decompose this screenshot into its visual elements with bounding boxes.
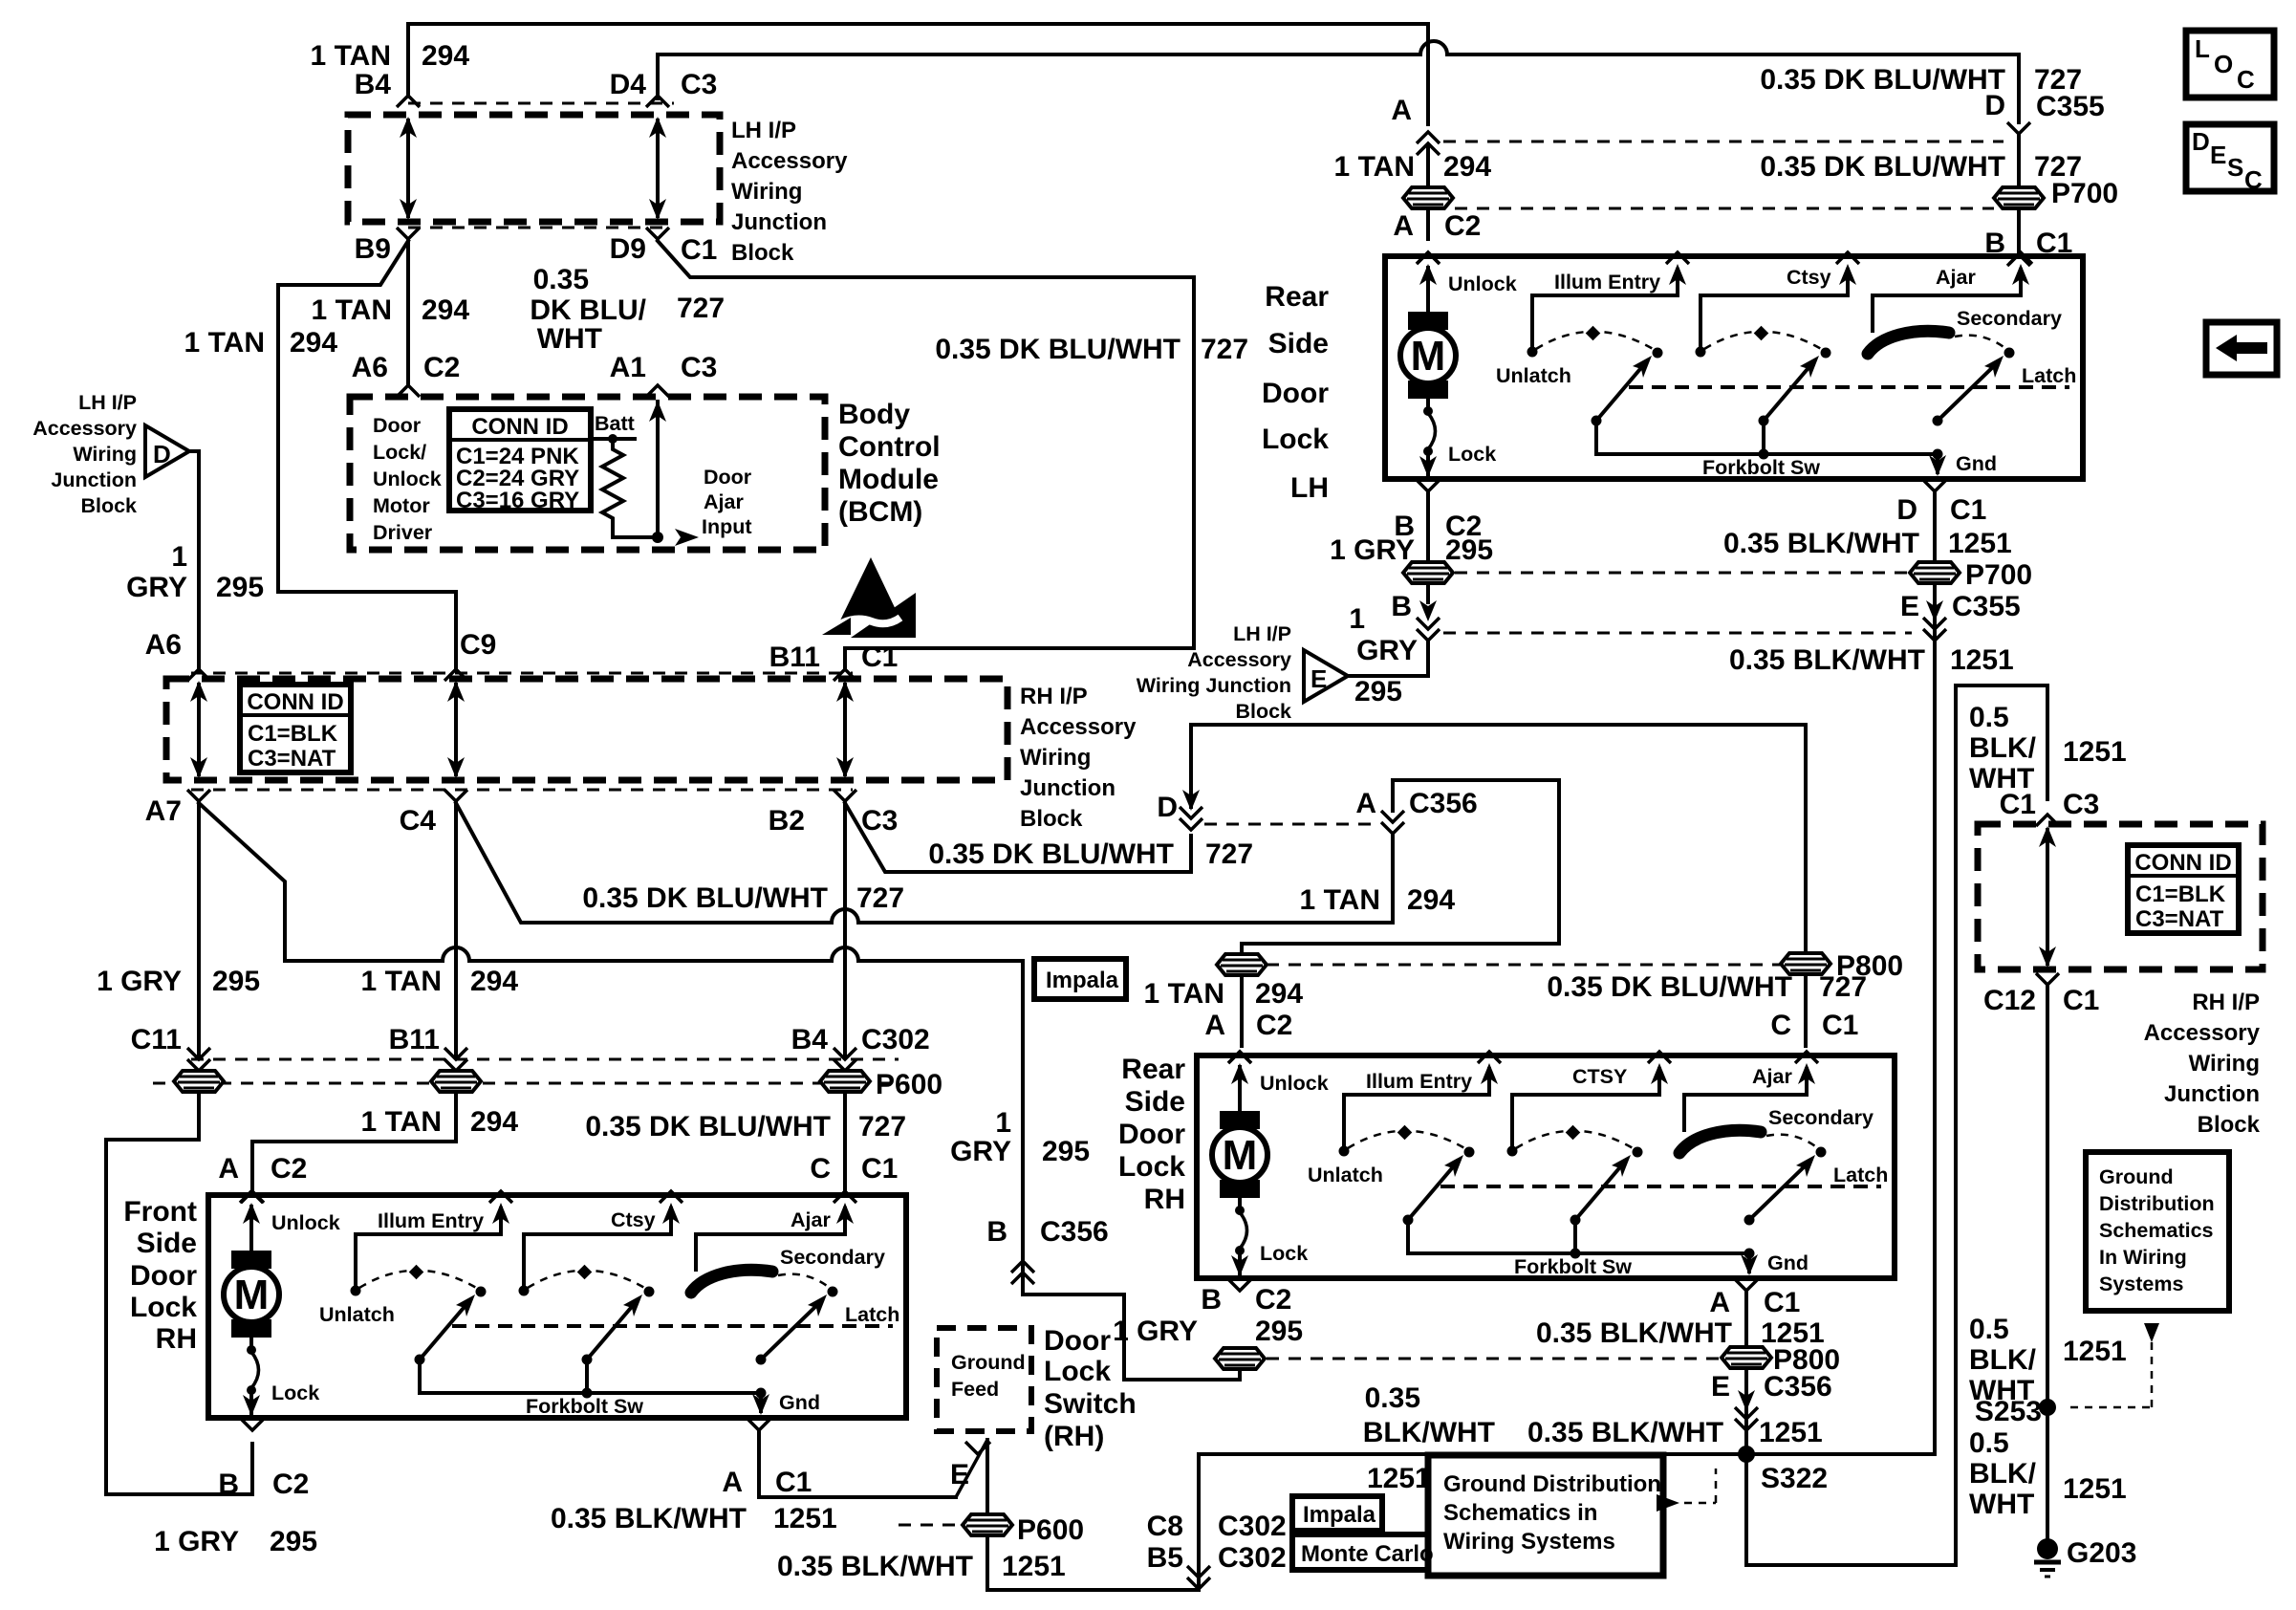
svg-text:0.5: 0.5	[1969, 702, 2009, 733]
svg-text:Ajar: Ajar	[704, 490, 744, 513]
svg-text:294: 294	[290, 327, 337, 359]
svg-text:A: A	[1709, 1287, 1730, 1318]
svg-text:Ground: Ground	[2099, 1165, 2174, 1188]
svg-text:1 TAN: 1 TAN	[361, 966, 442, 997]
connector P700 (1 TAN)	[1403, 187, 1453, 208]
svg-text:C: C	[2244, 165, 2263, 194]
svg-text:C4: C4	[400, 805, 437, 837]
wire dashed connector row top	[408, 102, 674, 105]
node D9 C1	[646, 228, 669, 239]
svg-text:294: 294	[470, 1106, 518, 1138]
svg-text:C1: C1	[2000, 789, 2036, 820]
node B C356	[1011, 1261, 1034, 1284]
svg-text:Junction: Junction	[1020, 775, 1116, 801]
connector P600 (C11)	[174, 1071, 224, 1092]
svg-text:Block: Block	[2198, 1112, 2261, 1138]
svg-text:Lock: Lock	[1262, 424, 1329, 455]
svg-text:1251: 1251	[773, 1503, 837, 1534]
svg-text:0.35 DK BLU/WHT: 0.35 DK BLU/WHT	[1547, 971, 1792, 1003]
svg-text:B2: B2	[769, 805, 805, 837]
node B2 C3	[834, 790, 856, 801]
svg-text:1251: 1251	[2063, 1336, 2127, 1367]
svg-text:In Wiring: In Wiring	[2099, 1246, 2187, 1269]
svg-text:Ground Distribution: Ground Distribution	[1443, 1471, 1661, 1497]
wire arrow inside right junction	[2046, 830, 2049, 964]
svg-text:C3: C3	[681, 69, 717, 100]
wire dashed row C356	[1204, 823, 1379, 826]
svg-text:C3: C3	[681, 352, 717, 383]
wire 727 riser from D4	[658, 54, 1420, 98]
pin A C1 below RH front	[747, 1419, 770, 1430]
svg-text:B: B	[1391, 591, 1412, 622]
svg-text:C1: C1	[1950, 494, 1986, 526]
wire P600 to C8/B5 riser	[987, 1457, 1199, 1590]
connector P700 (BLK/WHT)	[1910, 562, 1960, 583]
svg-text:(BCM): (BCM)	[838, 496, 922, 528]
wire A C1 front to E riser	[759, 1432, 956, 1497]
node DESC box	[2186, 124, 2274, 191]
svg-text:727: 727	[856, 882, 904, 914]
svg-text:C1: C1	[2036, 228, 2072, 259]
terminal E triangle	[1304, 650, 1348, 702]
svg-text:RH I/P: RH I/P	[2192, 990, 2260, 1015]
svg-text:0.35 BLK/WHT: 0.35 BLK/WHT	[777, 1551, 973, 1582]
svg-text:B4: B4	[355, 69, 392, 100]
svg-text:Wiring Systems: Wiring Systems	[1443, 1529, 1615, 1555]
wire 0.5 BLK/WHT loop top	[1956, 685, 2047, 799]
wire ajar pin RH front	[696, 1232, 845, 1236]
node C1 C3	[2036, 815, 2059, 826]
wire C11 loop to B C2 front box	[106, 1092, 252, 1494]
svg-text:294: 294	[422, 294, 469, 326]
wire dashed row P700 (GRY/BLK)	[1455, 572, 1908, 575]
svg-text:S: S	[2227, 153, 2243, 182]
svg-text:1 GRY: 1 GRY	[97, 966, 182, 997]
svg-text:Wiring: Wiring	[731, 179, 802, 205]
node D C355 (727)	[2007, 122, 2030, 134]
svg-text:Wiring Junction: Wiring Junction	[1137, 674, 1291, 697]
resistor R (door ajar pull-up)	[602, 439, 623, 537]
node C11	[187, 1048, 210, 1071]
svg-text:B: B	[1984, 228, 2005, 259]
wire B11 to A C2 front box	[252, 1092, 456, 1195]
svg-text:C2: C2	[423, 352, 460, 383]
wire arrows inside junction 2	[197, 685, 201, 774]
wire dashed pointer to S253	[2144, 1323, 2159, 1342]
wire A1 input arrow inside BCM	[656, 402, 660, 537]
svg-text:0.5: 0.5	[1969, 1427, 2009, 1459]
wire dashed row C355 top	[1443, 141, 2004, 143]
svg-text:Motor: Motor	[373, 494, 430, 517]
wire ground feed E to P600	[956, 1440, 987, 1497]
svg-text:BLK/WHT: BLK/WHT	[1363, 1417, 1495, 1448]
node C8 B5 C302	[1187, 1566, 1210, 1589]
wire arrow D4-D9 inside block	[656, 120, 660, 216]
svg-text:294: 294	[1443, 151, 1491, 183]
svg-text:P600: P600	[876, 1069, 942, 1100]
svg-text:Schematics in: Schematics in	[1443, 1500, 1597, 1526]
svg-text:Lock: Lock	[1118, 1151, 1185, 1183]
svg-text:1 GRY: 1 GRY	[154, 1526, 239, 1557]
svg-text:G203: G203	[2067, 1537, 2136, 1569]
wire E to B (P700)	[1348, 642, 1428, 676]
label Impala tag	[1292, 1496, 1382, 1531]
svg-text:CONN ID: CONN ID	[2134, 850, 2231, 876]
svg-text:C356: C356	[1040, 1216, 1109, 1248]
svg-text:295: 295	[1042, 1136, 1090, 1167]
svg-text:CONN ID: CONN ID	[247, 689, 343, 715]
node LOC box	[2186, 31, 2274, 98]
svg-text:B5: B5	[1147, 1542, 1183, 1574]
svg-text:295: 295	[212, 966, 260, 997]
svg-text:GRY: GRY	[950, 1136, 1011, 1167]
wire hop over x=1494 then to 2112	[1420, 41, 1447, 54]
svg-text:Rear: Rear	[1265, 281, 1329, 313]
svg-text:1 TAN: 1 TAN	[184, 327, 265, 359]
svg-text:B9: B9	[355, 233, 391, 265]
CONN ID table (motor driver)	[449, 409, 591, 511]
svg-text:WHT: WHT	[1969, 1489, 2034, 1520]
wire S322 horizontal	[1199, 1452, 1935, 1456]
svg-text:E: E	[1711, 1371, 1730, 1403]
wire B C1 into LH box	[2007, 254, 2030, 266]
svg-text:Accessory: Accessory	[32, 417, 137, 440]
wire to door ajar input	[613, 535, 658, 539]
svg-text:LH I/P: LH I/P	[731, 118, 796, 143]
wire dashed connector rows P600	[191, 1058, 899, 1061]
wire ajar pin RH rear	[1684, 1093, 1807, 1097]
svg-text:0.35 BLK/WHT: 0.35 BLK/WHT	[1723, 528, 1919, 559]
svg-text:E: E	[950, 1459, 969, 1490]
svg-text:BLK/: BLK/	[1969, 1458, 2037, 1490]
svg-text:C11: C11	[131, 1024, 182, 1055]
svg-text:P700: P700	[1965, 559, 2032, 591]
svg-text:Ctsy: Ctsy	[1787, 266, 1831, 289]
svg-text:C1: C1	[1822, 1010, 1858, 1041]
svg-text:C302: C302	[1218, 1542, 1287, 1574]
wire dashed pointer (bottom box)	[1657, 1494, 1679, 1512]
label Impala (inline connector)	[1034, 959, 1126, 999]
svg-text:0.35 BLK/WHT: 0.35 BLK/WHT	[1527, 1417, 1723, 1448]
svg-text:C2: C2	[271, 1153, 307, 1185]
node B4 C302	[834, 1048, 856, 1071]
svg-text:Lock: Lock	[130, 1292, 197, 1323]
wire arrow B4-B9 inside block	[406, 120, 410, 216]
wire D to P700	[2017, 136, 2021, 187]
svg-text:1 GRY: 1 GRY	[1113, 1316, 1198, 1347]
svg-text:Block: Block	[80, 494, 137, 517]
svg-text:0.35 DK BLU/WHT: 0.35 DK BLU/WHT	[928, 838, 1174, 870]
svg-text:LH I/P: LH I/P	[78, 391, 137, 414]
svg-text:WHT: WHT	[1969, 1375, 2034, 1406]
svg-text:Impala: Impala	[1303, 1502, 1376, 1528]
pin D C1 below LH	[1923, 480, 1946, 491]
ESD symbol	[822, 557, 916, 638]
svg-text:Side: Side	[137, 1228, 197, 1259]
junction block LH I/P (top)	[348, 115, 720, 222]
svg-text:294: 294	[1407, 884, 1455, 916]
wire dashed row below junction 2	[191, 789, 853, 792]
svg-text:727: 727	[1201, 334, 1248, 365]
node E C356 (rear RH)	[1735, 1407, 1758, 1430]
wire S322 bottom loop	[1746, 1454, 1956, 1565]
svg-text:C1: C1	[681, 234, 717, 266]
svg-text:C3=16 GRY: C3=16 GRY	[456, 488, 579, 513]
CONN ID table (right junction)	[2128, 845, 2239, 933]
door lock assembly RH rear	[1197, 1052, 1895, 1278]
svg-text:0.35 DK BLU/WHT: 0.35 DK BLU/WHT	[1760, 64, 2005, 96]
svg-text:Door: Door	[1262, 378, 1329, 409]
svg-text:1 TAN: 1 TAN	[1300, 884, 1380, 916]
node B4	[397, 96, 420, 107]
svg-text:A: A	[722, 1467, 743, 1498]
pin B C2 below RH front	[241, 1419, 264, 1430]
svg-text:P700: P700	[2051, 178, 2118, 209]
wire D C1 LH box down to S322	[1933, 493, 1937, 564]
svg-text:Junction: Junction	[2164, 1081, 2260, 1107]
svg-text:Block: Block	[1020, 806, 1083, 832]
svg-text:A: A	[218, 1153, 239, 1185]
svg-text:A: A	[1393, 210, 1414, 242]
svg-text:1251: 1251	[2063, 1473, 2127, 1505]
svg-text:1: 1	[995, 1107, 1011, 1139]
wire ajar pin LH	[1873, 294, 2021, 297]
svg-text:BLK/: BLK/	[1969, 732, 2037, 764]
svg-text:Ctsy: Ctsy	[611, 1208, 656, 1231]
junction block RH I/P (right)	[1978, 824, 2263, 969]
svg-text:C3: C3	[2063, 789, 2099, 820]
svg-text:Feed: Feed	[951, 1378, 999, 1401]
svg-text:0.35 DK BLU/WHT: 0.35 DK BLU/WHT	[585, 1111, 831, 1142]
svg-text:Distribution: Distribution	[2099, 1192, 2215, 1215]
svg-text:1251: 1251	[1950, 644, 2014, 676]
svg-text:1251: 1251	[2063, 736, 2127, 768]
svg-text:D: D	[2192, 127, 2210, 156]
node A7	[187, 790, 210, 801]
svg-text:LH I/P: LH I/P	[1233, 622, 1291, 645]
svg-text:Module: Module	[838, 464, 939, 495]
svg-text:295: 295	[1445, 534, 1493, 566]
body control module dashed box	[350, 397, 825, 550]
node A C356	[1381, 811, 1404, 834]
wire TAN 294: C4 diag along H1 to C356-A then over to RH box A/C2	[456, 803, 832, 923]
svg-text:C1: C1	[861, 642, 898, 673]
svg-text:B11: B11	[389, 1024, 440, 1055]
svg-text:0.35 DK BLU/WHT: 0.35 DK BLU/WHT	[1760, 151, 2005, 183]
CONN ID table (junction 2)	[240, 685, 351, 772]
node back arrow box	[2206, 322, 2277, 375]
svg-text:C3=NAT: C3=NAT	[248, 746, 336, 772]
wire D to A6	[189, 451, 199, 667]
svg-text:0.35 BLK/WHT: 0.35 BLK/WHT	[1536, 1317, 1732, 1349]
svg-text:C2: C2	[272, 1469, 309, 1500]
svg-text:E: E	[1310, 664, 1327, 693]
svg-text:1251: 1251	[1367, 1463, 1431, 1494]
svg-text:727: 727	[677, 293, 725, 324]
svg-text:D: D	[153, 440, 171, 468]
svg-text:Accessory: Accessory	[1187, 648, 1291, 671]
svg-text:C1=BLK: C1=BLK	[2135, 881, 2226, 907]
svg-text:S322: S322	[1761, 1463, 1828, 1494]
svg-text:Door: Door	[1118, 1119, 1185, 1150]
svg-text:D: D	[1896, 494, 1917, 526]
svg-text:C12: C12	[1983, 985, 2036, 1016]
svg-text:Door: Door	[130, 1260, 197, 1292]
svg-text:C356: C356	[1764, 1371, 1832, 1403]
connector P700 (1 GRY)	[1403, 562, 1453, 583]
svg-text:RH: RH	[1144, 1184, 1185, 1215]
node C4	[444, 790, 467, 801]
svg-text:A6: A6	[145, 629, 182, 661]
svg-text:Ajar: Ajar	[1752, 1065, 1792, 1088]
svg-text:Body: Body	[838, 399, 910, 430]
svg-text:Ground: Ground	[951, 1351, 1026, 1374]
svg-text:Rear: Rear	[1121, 1054, 1185, 1085]
svg-text:1 TAN: 1 TAN	[311, 40, 391, 72]
svg-text:GRY: GRY	[126, 572, 187, 603]
svg-text:C356: C356	[1409, 788, 1478, 819]
label Ground Feed dashed box	[937, 1328, 1031, 1431]
svg-text:295: 295	[216, 572, 264, 603]
svg-text:E: E	[2210, 141, 2226, 169]
svg-text:0.5: 0.5	[1969, 1314, 2009, 1345]
svg-text:O: O	[2214, 50, 2233, 78]
svg-text:0.35 DK BLU/WHT: 0.35 DK BLU/WHT	[935, 334, 1180, 365]
svg-text:C3=NAT: C3=NAT	[2135, 906, 2224, 932]
node D (C356)	[1180, 807, 1202, 830]
wire B9 to A6 straight	[406, 239, 410, 385]
svg-text:295: 295	[1354, 676, 1402, 707]
svg-text:D4: D4	[610, 69, 647, 100]
wire dashed row above junction 2	[191, 672, 853, 675]
wire dashed row P800 upper	[1267, 964, 1781, 967]
svg-text:1251: 1251	[1948, 528, 2012, 559]
svg-text:Monte Carlo: Monte Carlo	[1301, 1541, 1434, 1567]
svg-text:1251: 1251	[1759, 1417, 1823, 1448]
pin B C2 below LH	[1417, 480, 1440, 491]
svg-text:RH I/P: RH I/P	[1020, 684, 1088, 709]
svg-text:C: C	[810, 1153, 831, 1185]
node B11 C1 (BCM out)	[834, 669, 856, 681]
door lock assembly RH front	[208, 1191, 906, 1418]
svg-text:Side: Side	[1268, 328, 1329, 359]
svg-text:GRY: GRY	[1356, 635, 1418, 666]
svg-text:Unlock: Unlock	[373, 468, 442, 490]
wire C12 down to S253/G203	[2046, 985, 2049, 1544]
svg-text:A: A	[1204, 1010, 1225, 1041]
label box Ground Distribution Schematics In Wiring Systems	[2086, 1152, 2229, 1311]
connector oval (1 TAN 294 inline)	[1217, 954, 1267, 975]
svg-text:C1=BLK: C1=BLK	[248, 721, 338, 747]
svg-text:C302: C302	[861, 1024, 930, 1055]
node C9	[444, 669, 467, 681]
svg-text:B: B	[986, 1216, 1007, 1248]
svg-text:B4: B4	[791, 1024, 829, 1055]
svg-text:Lock/: Lock/	[373, 441, 426, 464]
svg-text:Ajar: Ajar	[1936, 266, 1976, 289]
svg-text:Door: Door	[704, 466, 752, 489]
label Monte Carlo tag	[1292, 1534, 1428, 1570]
wire 727: B2 diag, D riser, top run to P800	[845, 803, 1191, 872]
svg-text:1251: 1251	[1002, 1551, 1066, 1582]
svg-text:Schematics: Schematics	[2099, 1219, 2214, 1242]
wire dashed row P700 top	[1455, 207, 1994, 210]
connector P600 (B4)	[820, 1071, 870, 1092]
svg-text:Driver: Driver	[373, 521, 433, 544]
node E C355	[1923, 618, 1946, 641]
svg-text:Lock: Lock	[1044, 1356, 1111, 1387]
pin A C1 below RH rear	[1735, 1279, 1758, 1291]
wire 294 top run	[408, 24, 1428, 124]
node A6 (junction 2)	[187, 669, 210, 681]
svg-text:B: B	[1201, 1284, 1222, 1316]
svg-text:Wiring: Wiring	[2189, 1051, 2260, 1077]
svg-text:1 TAN: 1 TAN	[361, 1106, 442, 1138]
svg-text:A1: A1	[610, 352, 646, 383]
ground G203	[2037, 1538, 2058, 1559]
svg-text:295: 295	[270, 1526, 317, 1557]
svg-text:294: 294	[1255, 978, 1303, 1010]
svg-text:A7: A7	[145, 795, 182, 827]
svg-text:P600: P600	[1017, 1514, 1084, 1546]
svg-text:1: 1	[171, 541, 187, 573]
node S253	[2039, 1399, 2056, 1416]
svg-text:C8: C8	[1147, 1511, 1183, 1542]
node B9	[397, 228, 420, 239]
svg-text:1 TAN: 1 TAN	[312, 294, 392, 326]
svg-text:CONN ID: CONN ID	[471, 414, 568, 440]
node B11 (P600)	[444, 1048, 467, 1071]
svg-text:C: C	[2237, 65, 2255, 94]
wire dashed row below block	[408, 227, 669, 229]
label box Ground Distribution Schematics in Wiring Systems (bottom)	[1428, 1455, 1663, 1576]
connector P600 (BLK/WHT)	[963, 1514, 1012, 1535]
svg-text:727: 727	[1205, 838, 1253, 870]
svg-text:D: D	[1157, 792, 1178, 823]
svg-text:(RH): (RH)	[1044, 1421, 1104, 1452]
svg-text:A: A	[1391, 95, 1412, 126]
svg-text:C2: C2	[1444, 210, 1481, 242]
svg-text:Accessory: Accessory	[1020, 714, 1137, 740]
svg-text:C355: C355	[1952, 591, 2021, 622]
svg-text:Side: Side	[1125, 1086, 1185, 1118]
svg-text:294: 294	[470, 966, 518, 997]
wire GRY 295: A7 diag to B/C356 riser	[199, 803, 443, 961]
svg-text:Ajar: Ajar	[791, 1208, 831, 1231]
svg-text:1 TAN: 1 TAN	[1144, 978, 1224, 1010]
svg-text:C9: C9	[460, 629, 496, 661]
pin B C2 below RH rear	[1228, 1279, 1251, 1291]
svg-text:Accessory: Accessory	[731, 148, 848, 174]
svg-text:C: C	[1770, 1010, 1791, 1041]
wire B9 left loop to C9	[278, 241, 456, 667]
svg-text:C3: C3	[861, 805, 898, 837]
svg-text:L: L	[2195, 34, 2210, 63]
svg-text:Batt: Batt	[595, 412, 635, 435]
wire C1 branch to BCM B11	[658, 241, 1194, 669]
svg-text:A: A	[1355, 788, 1376, 819]
svg-text:727: 727	[858, 1111, 906, 1142]
svg-text:0.35: 0.35	[533, 264, 589, 295]
svg-text:1: 1	[1349, 603, 1365, 635]
svg-text:0.35 DK BLU/WHT: 0.35 DK BLU/WHT	[582, 882, 828, 914]
svg-text:Junction: Junction	[51, 468, 137, 491]
svg-text:727: 727	[1819, 971, 1867, 1003]
svg-text:C1: C1	[861, 1153, 898, 1185]
svg-text:Front: Front	[123, 1196, 197, 1228]
svg-text:0.35 BLK/WHT: 0.35 BLK/WHT	[551, 1503, 747, 1534]
svg-text:Accessory: Accessory	[2144, 1020, 2261, 1046]
